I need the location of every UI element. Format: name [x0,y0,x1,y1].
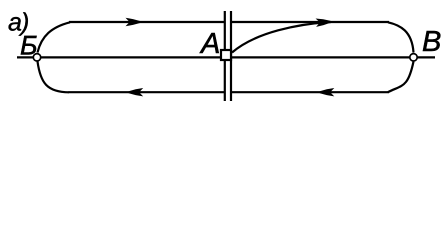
label а) [9,17,21,31]
node Б: circle [33,54,40,61]
wire: bottom loop right segment [231,91,389,93]
wire: top-right corner curve to node В [388,22,414,52]
node A: square [221,50,231,60]
label В [423,31,440,51]
wire: bottom loop left segment [69,91,225,93]
wire: curved trajectory from plate A to top loop [232,22,331,53]
wire: top loop left segment [69,21,224,23]
wire: top-left corner curve from node Б [38,22,71,52]
wire: main horizontal line Б–А–В [17,56,435,58]
wire: bottom-right corner curve to node В [388,62,414,93]
label Б [21,36,37,55]
wire: bottom-left corner curve from node Б [38,62,70,93]
arrow on bottom loop left segment pointing left [129,88,144,96]
node В: circle [410,54,417,61]
arrow on trajectory curve pointing right [316,18,331,27]
plate: left vertical line of A [224,11,226,101]
arrow on bottom loop right segment pointing left [320,88,335,96]
arrow on top loop pointing right [126,18,141,26]
label А [200,33,219,53]
plate: right vertical line of A [230,11,232,101]
wire: top loop right segment [231,21,389,23]
